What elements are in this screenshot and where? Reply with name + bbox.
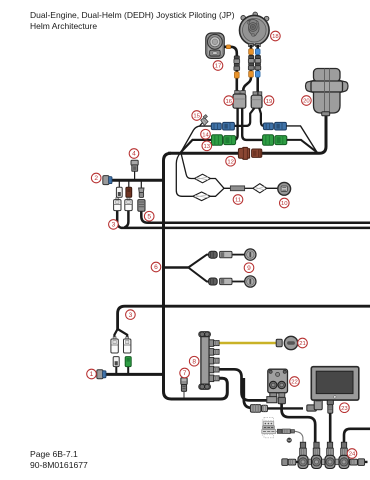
fuse holder white 1 [114, 198, 121, 211]
svg-text:10: 10 [281, 201, 288, 207]
callout 15 [192, 111, 202, 121]
callout 10 [280, 198, 290, 208]
wire item 6 upper diagonal [188, 255, 209, 268]
svg-text:Page 6B-7.1: Page 6B-7.1 [30, 449, 78, 459]
wire item 6 lower diagonal [188, 268, 209, 282]
connector 9a round [209, 251, 218, 258]
CALLOUTS [87, 31, 357, 458]
connector joint blue cable [255, 55, 261, 70]
connector pair blue left [211, 122, 234, 130]
svg-text:1: 1 [90, 371, 94, 378]
callout 18 [271, 31, 281, 41]
tee 1 [298, 442, 308, 468]
connector small gray c [139, 188, 144, 197]
wire ferrite to diamond 3 [245, 187, 253, 189]
connector 1 [97, 370, 106, 379]
splitter 19 [251, 92, 262, 108]
wire merge to ferrite [224, 187, 230, 189]
wire blue line right [286, 126, 317, 152]
callout 20 [302, 96, 312, 106]
wire green line left [181, 140, 212, 152]
wire blue line left [181, 126, 212, 152]
fuse holder white 2 [125, 198, 132, 211]
connector small white a [116, 187, 122, 197]
wire joystick blue cable [256, 45, 259, 94]
connector DB pair [250, 405, 267, 413]
callout 14 [201, 129, 211, 139]
wire device 17 cable [224, 47, 237, 91]
wire green line right [287, 140, 317, 152]
wire stem1 thin [295, 431, 303, 442]
svg-text:11: 11 [235, 198, 241, 204]
connector pair green right [263, 135, 287, 145]
svg-text:24: 24 [349, 452, 356, 458]
callout 16 [224, 96, 234, 106]
wire long line to right edge mid [118, 306, 370, 330]
tee 3 [325, 442, 335, 468]
svg-text:3: 3 [129, 312, 133, 319]
callout 19 [264, 96, 274, 106]
svg-text:Dual-Engine, Dual-Helm (DEDH): Dual-Engine, Dual-Helm (DEDH) Joystick P… [30, 10, 235, 20]
connector 9d rect [220, 278, 232, 284]
svg-text:4: 4 [132, 151, 136, 158]
fuse holder white 4 [124, 337, 131, 353]
callout 6 [151, 262, 161, 272]
connector 7 [181, 378, 187, 392]
svg-text:13: 13 [204, 144, 211, 150]
twisted diamond 3 [253, 184, 267, 193]
wire lower Y left branch [114, 329, 117, 339]
wire item 6 horizontal [164, 266, 189, 269]
connector pair blue right [263, 122, 286, 130]
connector 5 gray holder [138, 200, 145, 212]
wire drop b [128, 182, 130, 188]
wire diamond1 to merge [211, 179, 225, 189]
band orange jc2 [249, 71, 254, 77]
callout 7 [180, 368, 190, 378]
band orange on 17 cable [226, 45, 230, 49]
callout 17 [213, 61, 223, 71]
callout 3 upper [109, 220, 119, 230]
callout 4 [129, 149, 139, 159]
svg-text:21: 21 [299, 341, 306, 347]
connector 9c round [209, 278, 218, 285]
svg-text:8: 8 [192, 358, 196, 365]
wire to device 9 upper [232, 254, 245, 256]
svg-text:22: 22 [291, 380, 298, 386]
connector 2 [103, 176, 112, 185]
backbone line [282, 461, 368, 463]
wire drop c [140, 182, 142, 189]
wire stub to connector 15 [200, 122, 203, 126]
connector joint orange cable [248, 55, 254, 70]
svg-text:23: 23 [341, 406, 348, 412]
wire item 3 holder2 to Y merge [124, 211, 128, 228]
ferrite item 11 [230, 186, 244, 191]
wire connector 4 drop [134, 171, 136, 180]
connector 10 round [278, 182, 291, 195]
wire diamond2 to merge [210, 188, 224, 196]
callout 23 [340, 403, 350, 413]
footer text [30, 449, 88, 470]
wire display to stem3 [329, 413, 332, 442]
title text [30, 10, 235, 31]
splitter 16 [233, 91, 246, 109]
twisted diamond 2 [193, 192, 211, 201]
band blue jb2 [255, 71, 260, 77]
wire thick line to brown connector left [168, 152, 239, 155]
svg-text:18: 18 [272, 34, 279, 40]
wire connector 7 drop [183, 391, 185, 397]
wire yellow to 21 [220, 342, 277, 345]
device 9 upper [245, 249, 256, 260]
wire lower holders to line [116, 367, 128, 375]
wire twisted A [181, 152, 195, 178]
callout 11 [233, 195, 243, 205]
wire fuse line upper left [111, 179, 164, 182]
wire 16 left leg [232, 108, 238, 140]
band blue jb1 [255, 49, 260, 55]
svg-text:19: 19 [266, 99, 273, 105]
svg-text:5: 5 [147, 213, 151, 220]
wire to DB connector [244, 378, 253, 408]
wire to device 9 lower [232, 281, 245, 283]
junction box ports [209, 340, 219, 382]
callout 2 [91, 173, 101, 183]
wire bottom left line item1 [105, 373, 164, 376]
connector small maroon b [126, 187, 132, 197]
terminator left [282, 459, 296, 466]
tiny accessory assembly [262, 417, 295, 442]
band orange 2 on 17 cable [234, 72, 239, 78]
wire DB to display elbow [267, 407, 303, 409]
callout 21 [298, 338, 308, 348]
device 17 CAN pad [206, 33, 224, 58]
svg-text:16: 16 [226, 99, 233, 105]
wire main bus vertical [164, 153, 228, 399]
wire port4 to elbow 22 [220, 369, 268, 400]
wire 22 to stem2 [282, 404, 316, 442]
wire 19 left leg [234, 108, 254, 126]
tee 2 [312, 442, 322, 468]
svg-text:Helm Architecture: Helm Architecture [30, 21, 97, 31]
connector 4 fuse holder [131, 160, 138, 171]
wire diamond 3 to connector 10 [267, 187, 278, 189]
display 23 [311, 367, 359, 400]
callout 1 [87, 369, 97, 379]
connector pair green left [212, 135, 236, 145]
connector display elbow [307, 398, 322, 411]
svg-text:90-8M0161677: 90-8M0161677 [30, 460, 88, 470]
callout 12 [226, 156, 236, 166]
wire thick line brown to device 20 [262, 114, 327, 153]
callout 5 [144, 211, 154, 221]
connector 21 plug [276, 339, 282, 346]
wire drop a [118, 182, 120, 188]
svg-text:3: 3 [112, 222, 116, 229]
wire long line A from item 5 [141, 211, 370, 223]
svg-text:12: 12 [227, 159, 234, 165]
svg-text:15: 15 [193, 114, 200, 120]
wire lower Y right branch [118, 329, 128, 339]
fuse holder white 3 [111, 337, 118, 353]
tee 4 [339, 442, 349, 468]
junction box 8 [199, 332, 211, 390]
connector elbow under 22 [267, 393, 277, 403]
callout 3 lower [126, 310, 136, 320]
wire 19 right leg [259, 108, 264, 126]
terminator right [350, 459, 365, 466]
wire long line B from item 3 Y [117, 211, 370, 228]
callout 24 [347, 449, 357, 459]
backbone couplers [307, 459, 339, 465]
svg-text:9: 9 [247, 265, 251, 272]
svg-text:2: 2 [94, 175, 98, 182]
twisted diamond 1 [195, 174, 211, 183]
svg-text:17: 17 [215, 64, 222, 70]
svg-text:14: 14 [202, 132, 209, 138]
connector under 22 right [278, 393, 285, 404]
device 20 [306, 69, 349, 116]
callout 8 [189, 356, 199, 366]
connector small green lower [125, 357, 131, 367]
device 22 box [268, 369, 288, 393]
wire 16 right leg [242, 108, 263, 140]
wire stem4 to right edge [344, 429, 370, 442]
svg-text:7: 7 [183, 370, 187, 377]
connector small white lower [113, 357, 119, 367]
connector display straight [327, 400, 333, 413]
wire twisted B [176, 152, 193, 196]
svg-text:20: 20 [303, 99, 310, 105]
joystick 18 [240, 12, 270, 47]
callout 22 [290, 377, 300, 387]
wire joystick orange cable [243, 45, 251, 92]
connector 15 small [201, 115, 208, 126]
callout 13 [202, 141, 212, 151]
connector pair brown 12 [238, 147, 261, 159]
connector joint on 17 cable [234, 56, 240, 71]
connector 9b rect [220, 251, 232, 257]
svg-text:6: 6 [154, 264, 158, 271]
callout 9 [244, 263, 254, 273]
device 9 lower [245, 276, 256, 287]
device 21 round [284, 336, 297, 349]
band orange jc1 [249, 49, 254, 55]
